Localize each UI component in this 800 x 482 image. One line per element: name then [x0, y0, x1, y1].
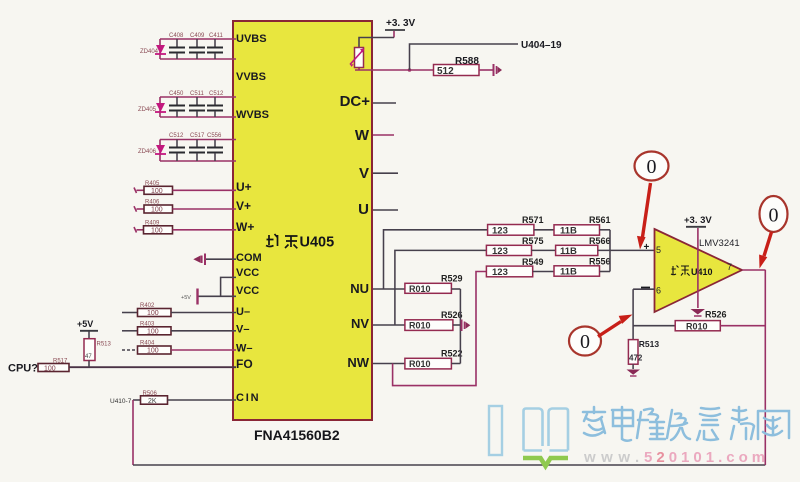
- wire NV up branch to row2: [395, 250, 487, 325]
- svg-text:U404–19: U404–19: [521, 40, 562, 51]
- capacitor C408: [169, 33, 185, 59]
- watermark partial logo box: [489, 406, 502, 455]
- capacitor bank 1 top rail wire: [160, 38, 236, 40]
- watermark url www.520101.com: [583, 449, 769, 466]
- svg-text:R409: R409: [145, 221, 160, 227]
- op-amp U410 body: [655, 229, 743, 312]
- resistor R588 512: [434, 56, 494, 77]
- svg-text:0: 0: [580, 331, 590, 353]
- capacitor C409: [189, 33, 205, 59]
- op-amp label 刘东U410: [671, 266, 713, 278]
- svg-text:R517: R517: [53, 359, 68, 365]
- capacitor bank 1 bottom rail wire: [160, 58, 236, 60]
- svg-text:C450: C450: [169, 91, 184, 97]
- svg-text:C408: C408: [169, 33, 184, 39]
- ground below R513: [627, 364, 641, 376]
- resistor R561 11B: [554, 215, 611, 237]
- svg-text:100: 100: [44, 365, 56, 372]
- wire inverting node down: [632, 289, 634, 339]
- svg-text:CIN: CIN: [236, 392, 260, 404]
- svg-text:R506: R506: [143, 391, 158, 397]
- svg-text:R010: R010: [686, 321, 708, 331]
- svg-text:472: 472: [629, 354, 643, 363]
- svg-text:LMV3241: LMV3241: [699, 238, 740, 249]
- +3.3V supply top: [385, 18, 416, 38]
- red arrow annotation 2: [759, 232, 771, 269]
- svg-text:VVBS: VVBS: [236, 71, 266, 83]
- svg-text:R575: R575: [522, 236, 544, 246]
- resistor R549 123: [486, 257, 554, 278]
- svg-text:FNA41560B2: FNA41560B2: [254, 427, 340, 443]
- capacitor C450: [169, 91, 185, 117]
- watermark book base green: [523, 458, 568, 466]
- resistor R405 (U+ 100): [134, 181, 236, 195]
- svg-text:ZD406: ZD406: [138, 149, 157, 155]
- svg-text:100: 100: [151, 207, 163, 214]
- svg-text:U–: U–: [236, 306, 250, 318]
- svg-text:0: 0: [769, 205, 779, 227]
- svg-text:VCC: VCC: [236, 285, 259, 297]
- svg-text:0: 0: [647, 156, 657, 178]
- capacitor C517: [189, 133, 205, 161]
- svg-text:CPU?: CPU?: [8, 363, 38, 375]
- svg-text:COM: COM: [236, 252, 262, 264]
- svg-text:520101.com: 520101.com: [644, 449, 769, 466]
- resistor R529 R010: [405, 274, 463, 294]
- svg-text:R549: R549: [522, 257, 544, 267]
- watermark book icon: [524, 409, 569, 451]
- svg-text:R571: R571: [522, 215, 544, 225]
- red circle annotation 1: [635, 152, 669, 181]
- wire op-amp output: [742, 269, 765, 271]
- svg-text:2K: 2K: [148, 398, 157, 405]
- svg-text:512: 512: [437, 66, 454, 77]
- capacitor C512: [169, 133, 185, 161]
- resistor R571 123: [488, 215, 554, 237]
- +3.3V supply op-amp: [684, 215, 712, 227]
- resistor R566 11B: [556, 236, 655, 257]
- wire shunt ground bus: [459, 289, 461, 364]
- VCC2 wire: [198, 295, 236, 297]
- VCC1 wire: [221, 277, 236, 296]
- svg-text:C556: C556: [207, 133, 222, 139]
- capacitor C411: [207, 33, 224, 59]
- capacitor +5V at VCC: [181, 289, 198, 305]
- svg-text:U410-7: U410-7: [110, 398, 132, 405]
- IC part number FNA41560B2: [254, 427, 340, 443]
- svg-text:UVBS: UVBS: [236, 33, 267, 45]
- svg-text:ZD404: ZD404: [140, 49, 159, 55]
- resistor R522 R010: [405, 349, 463, 370]
- capacitor C512a: [207, 91, 224, 117]
- resistor R506 (CIN 2K): [133, 391, 236, 405]
- COM off-page arrow: [193, 254, 205, 266]
- pin stub V: [373, 172, 398, 174]
- wire NV pin stub: [373, 324, 405, 326]
- op-amp pin 5 marks: [644, 242, 662, 255]
- op-amp pin 6 marks: [641, 286, 661, 296]
- resistor R556 11B: [554, 257, 611, 278]
- svg-text:6: 6: [656, 286, 661, 296]
- svg-text:R010: R010: [409, 359, 431, 369]
- svg-text:R561: R561: [589, 215, 611, 225]
- resistor R403 (V- 100): [122, 322, 236, 336]
- svg-text:C411: C411: [209, 33, 224, 39]
- zener ZD404: [140, 39, 166, 59]
- svg-text:V–: V–: [236, 324, 249, 336]
- IC U405 name 刘东U405: [266, 234, 334, 251]
- svg-text:VCC: VCC: [236, 267, 259, 279]
- off-page arrow right of R588: [494, 64, 503, 76]
- FO wire: [69, 366, 236, 368]
- right rail wire to op-amp output: [764, 270, 766, 465]
- resistor R517: [38, 359, 69, 373]
- wire NW pin stub: [373, 363, 405, 365]
- svg-text:U410: U410: [691, 267, 713, 277]
- capacitor bank 3 top rail wire: [160, 139, 236, 141]
- svg-text:NV: NV: [351, 316, 369, 331]
- svg-text:123: 123: [492, 246, 508, 257]
- svg-text:C511: C511: [190, 91, 205, 97]
- red arrow annotation 3: [598, 315, 633, 337]
- svg-text:5: 5: [656, 245, 661, 255]
- wire NW loop to row3: [393, 272, 487, 386]
- resistor R406 (V+ 100): [134, 200, 236, 214]
- svg-text:R406: R406: [145, 200, 160, 206]
- svg-text:R526: R526: [441, 310, 463, 320]
- svg-text:U405: U405: [300, 235, 335, 251]
- svg-text:R566: R566: [589, 236, 611, 246]
- svg-text:R010: R010: [409, 321, 431, 331]
- svg-text:R529: R529: [441, 274, 463, 284]
- svg-text:FO: FO: [236, 357, 253, 371]
- svg-text:NW: NW: [347, 355, 369, 370]
- svg-text:U: U: [358, 201, 369, 218]
- svg-text:R513: R513: [97, 342, 112, 348]
- svg-text:C512: C512: [209, 91, 224, 97]
- svg-text:R404: R404: [140, 341, 155, 347]
- wire CIN loop down: [132, 400, 134, 465]
- wire thermistor bottom row: [355, 68, 434, 71]
- svg-text:V+: V+: [236, 199, 251, 213]
- svg-text:+5V: +5V: [181, 295, 191, 301]
- resistor R526fb R010 feedback: [633, 310, 765, 332]
- capacitor bank 2 bottom rail wire: [160, 116, 236, 118]
- svg-text:DC+: DC+: [340, 93, 371, 110]
- svg-text:100: 100: [147, 348, 159, 355]
- capacitor bank 2 top rail wire: [160, 96, 236, 98]
- wire +3.3V to thermistor: [359, 38, 394, 48]
- red circle annotation 3: [569, 327, 601, 356]
- svg-text:WVBS: WVBS: [236, 109, 269, 121]
- IC U405 body: [233, 21, 372, 420]
- junction node: [408, 68, 412, 72]
- capacitor C556: [207, 133, 223, 161]
- zener ZD405: [138, 97, 166, 117]
- resistor R513 472: [628, 339, 659, 364]
- svg-text:11B: 11B: [560, 246, 577, 257]
- svg-text:R526: R526: [705, 310, 727, 320]
- red arrow annotation 1: [637, 183, 651, 250]
- svg-text:ZD405: ZD405: [138, 107, 157, 113]
- svg-text:R522: R522: [441, 349, 463, 359]
- zener ZD406: [138, 140, 166, 162]
- svg-text:C517: C517: [190, 133, 205, 139]
- COM wire: [205, 258, 237, 260]
- svg-text:100: 100: [147, 329, 159, 336]
- ground below op-amp: [691, 309, 706, 316]
- thermistor RT405: [350, 48, 365, 68]
- capacitor C511: [189, 91, 205, 117]
- svg-text:+3. 3V: +3. 3V: [386, 18, 416, 29]
- wire op-amp supply to ground: [697, 228, 699, 308]
- red circle annotation 2: [760, 196, 788, 232]
- +5V supply for FO pull-up: [77, 319, 98, 339]
- resistor R518 pull-up 472: [84, 339, 112, 368]
- svg-text:11B: 11B: [560, 226, 577, 237]
- svg-text:123: 123: [492, 226, 508, 237]
- svg-text:www.: www.: [583, 449, 645, 466]
- svg-text:R403: R403: [140, 322, 155, 328]
- pin stub DC+: [373, 102, 396, 104]
- svg-text:R588: R588: [455, 56, 479, 67]
- wire inverting input: [633, 288, 654, 290]
- svg-text:47: 47: [85, 354, 92, 360]
- svg-text:100: 100: [151, 228, 163, 235]
- watermark text 家电维修资料网: [583, 407, 789, 441]
- pin stub U: [373, 209, 398, 211]
- pin stub W: [373, 134, 394, 136]
- svg-text:W: W: [355, 127, 370, 144]
- svg-text:7: 7: [727, 262, 732, 272]
- svg-text:V: V: [359, 165, 369, 182]
- svg-text:100: 100: [151, 188, 163, 195]
- svg-text:U+: U+: [236, 180, 252, 194]
- capacitor bank 3 bottom rail wire: [160, 160, 236, 162]
- wire NU up branch to row1: [384, 230, 488, 289]
- wire joining 11B outputs: [609, 230, 611, 272]
- svg-text:+: +: [644, 242, 650, 253]
- wire NU pin stub: [373, 288, 405, 290]
- bottom rail wire: [133, 464, 765, 466]
- ground arrow at shunt bus: [462, 320, 471, 332]
- resistor R526 R010: [405, 310, 463, 331]
- resistor R575 123: [486, 236, 555, 257]
- svg-text:R405: R405: [145, 181, 160, 187]
- svg-text:11B: 11B: [560, 267, 577, 278]
- svg-text:R513: R513: [639, 339, 660, 349]
- svg-text:W+: W+: [236, 220, 254, 234]
- svg-text:+5V: +5V: [77, 319, 93, 329]
- svg-text:R010: R010: [409, 284, 431, 294]
- resistor R407 (W+ 100): [134, 221, 236, 235]
- svg-text:R402: R402: [140, 303, 155, 309]
- resistor R404 (W- 100): [122, 341, 236, 355]
- resistor R402 (U- 100): [122, 303, 236, 317]
- svg-text:+3. 3V: +3. 3V: [684, 215, 712, 226]
- wire junction up to U404-19: [410, 44, 519, 70]
- svg-text:100: 100: [147, 310, 159, 317]
- svg-text:123: 123: [492, 267, 508, 278]
- svg-text:C409: C409: [190, 33, 205, 39]
- svg-text:R556: R556: [589, 257, 611, 267]
- svg-text:C512: C512: [169, 133, 184, 139]
- svg-text:NU: NU: [350, 281, 369, 296]
- svg-text:W–: W–: [236, 343, 253, 355]
